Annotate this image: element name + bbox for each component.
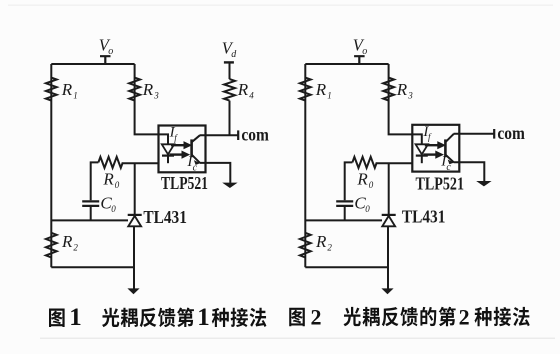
wire emitter to ground [454, 162, 485, 181]
terminal com [493, 129, 495, 139]
terminal Vo [100, 56, 111, 64]
svg-text:o: o [362, 46, 367, 57]
svg-text:TL431: TL431 [402, 207, 446, 227]
resistor R4 [224, 79, 235, 101]
svg-text:4: 4 [249, 90, 254, 100]
svg-text:0: 0 [369, 180, 374, 190]
label C0 [100, 193, 116, 214]
label R2 [315, 232, 332, 253]
resistor R2 [46, 233, 57, 258]
terminal Vo [354, 56, 365, 64]
opto internal: light arrow 2 [423, 151, 443, 158]
resistor R2 [300, 233, 311, 258]
wire left rail [304, 64, 306, 267]
label Vd [222, 39, 237, 60]
svg-text:R: R [142, 80, 154, 99]
svg-text:R: R [315, 232, 327, 251]
svg-text:2: 2 [327, 242, 332, 252]
svg-text:2: 2 [73, 242, 78, 252]
svg-text:1: 1 [327, 90, 332, 100]
svg-text:f: f [428, 132, 432, 142]
wire bottom bus [51, 266, 134, 268]
scan edge artifact bottom [40, 338, 555, 339]
wire C0 to reference node [90, 207, 92, 220]
label Vo [353, 35, 367, 56]
svg-text:3: 3 [407, 90, 413, 100]
wire reference rail [305, 219, 382, 221]
caption: 图1 光耦反馈第1种接法 [49, 304, 266, 331]
label R1 [61, 80, 78, 101]
svg-text:R: R [61, 232, 73, 251]
resistor R0 [352, 157, 376, 168]
wire R4 branch [229, 63, 231, 79]
label C0 [354, 193, 370, 214]
svg-text:R: R [356, 169, 368, 188]
wire collector to com [454, 133, 495, 135]
opto internal: LED D2 [416, 144, 428, 163]
terminal Vd [224, 61, 234, 63]
label R0 [356, 169, 373, 190]
capacitor C0 [336, 201, 353, 206]
resistor R3 [129, 78, 140, 101]
label If [422, 124, 432, 142]
opto internal: light arrow 1 [425, 142, 445, 149]
label R2 [61, 232, 78, 253]
optocoupler TLP521 U1: package outline [159, 126, 206, 173]
wire reference rail [51, 219, 128, 221]
wire top bus [51, 63, 134, 65]
wire top bus [305, 63, 388, 65]
ground below emitter [222, 183, 237, 188]
svg-text:TLP521: TLP521 [161, 173, 208, 193]
left schematic: circuit 1 [46, 35, 269, 294]
opto internal: phototransistor Q1 [192, 135, 201, 165]
label Vo [99, 35, 113, 56]
wire LED cathode to R0 node [123, 162, 159, 164]
svg-text:R: R [61, 80, 73, 99]
wire R0 left lead [91, 162, 99, 200]
resistor R3 [383, 78, 394, 101]
wire bottom bus [305, 266, 388, 268]
opto internal: light arrow 1 [171, 142, 191, 149]
svg-text:3: 3 [153, 90, 159, 100]
label If [169, 125, 179, 143]
wire TL431 anode to ground [387, 226, 389, 288]
wire TL431 anode to ground [133, 226, 135, 288]
label R3 [142, 80, 159, 101]
wire LED cathode to R0 node [377, 162, 413, 164]
terminal com [237, 130, 239, 140]
wire R0 left lead [345, 162, 353, 200]
opto internal: LED anode lead [412, 134, 422, 144]
svg-text:c: c [446, 162, 451, 173]
svg-text:c: c [193, 163, 198, 174]
wire R3 branch [135, 64, 159, 134]
right schematic: circuit 2 [300, 35, 525, 294]
TL431 shunt regulator D1 [128, 215, 142, 226]
ground below emitter [476, 181, 491, 186]
optocoupler TLP521 U1: package outline [412, 125, 459, 172]
wire C0 to reference node [344, 207, 346, 220]
label R3 [396, 80, 413, 101]
label R0 [102, 169, 119, 190]
svg-text:o: o [108, 46, 113, 57]
svg-text:d: d [231, 49, 237, 60]
opto internal: LED D2 [162, 144, 174, 163]
opto internal: light arrow 2 [170, 151, 190, 158]
svg-text:R: R [237, 80, 249, 99]
svg-text:0: 0 [115, 180, 120, 190]
wire TL431 cathode [134, 163, 136, 215]
svg-text:1: 1 [73, 90, 78, 100]
scan edge artifact top [8, 5, 553, 6]
ground below TL431 [381, 288, 393, 294]
wire collector to com [200, 134, 238, 136]
label R1 [315, 80, 332, 101]
svg-text:0: 0 [111, 204, 116, 214]
svg-text:TLP521: TLP521 [416, 173, 465, 193]
svg-text:1: 1 [69, 304, 82, 331]
ground below TL431 [127, 288, 139, 294]
svg-text:0: 0 [365, 204, 370, 214]
svg-text:R: R [396, 80, 408, 99]
svg-text:com: com [497, 123, 525, 143]
label Ic [440, 154, 451, 173]
TL431 shunt regulator D1 [382, 215, 396, 226]
label R4 [237, 80, 254, 101]
svg-text:TL431: TL431 [143, 207, 187, 227]
svg-text:2: 2 [459, 304, 470, 329]
svg-text:R: R [315, 80, 327, 99]
wire left rail [50, 64, 52, 267]
wire R3 branch [389, 64, 413, 134]
label Ic [186, 154, 197, 173]
resistor R1 [46, 78, 57, 101]
resistor R0 [98, 157, 122, 168]
wire emitter to ground [200, 163, 231, 183]
opto internal: phototransistor Q1 [445, 134, 454, 165]
svg-text:2: 2 [311, 304, 322, 329]
svg-text:f: f [174, 133, 178, 143]
caption: 图2 光耦反馈的第2种接法 [289, 304, 529, 329]
resistor R1 [300, 78, 311, 101]
capacitor C0 [82, 201, 99, 206]
svg-text:R: R [102, 169, 114, 188]
svg-text:1: 1 [197, 304, 210, 331]
wire R4 to com node [229, 101, 231, 136]
opto internal: LED anode lead [159, 134, 169, 144]
wire TL431 cathode [388, 163, 390, 215]
svg-text:com: com [241, 125, 269, 145]
